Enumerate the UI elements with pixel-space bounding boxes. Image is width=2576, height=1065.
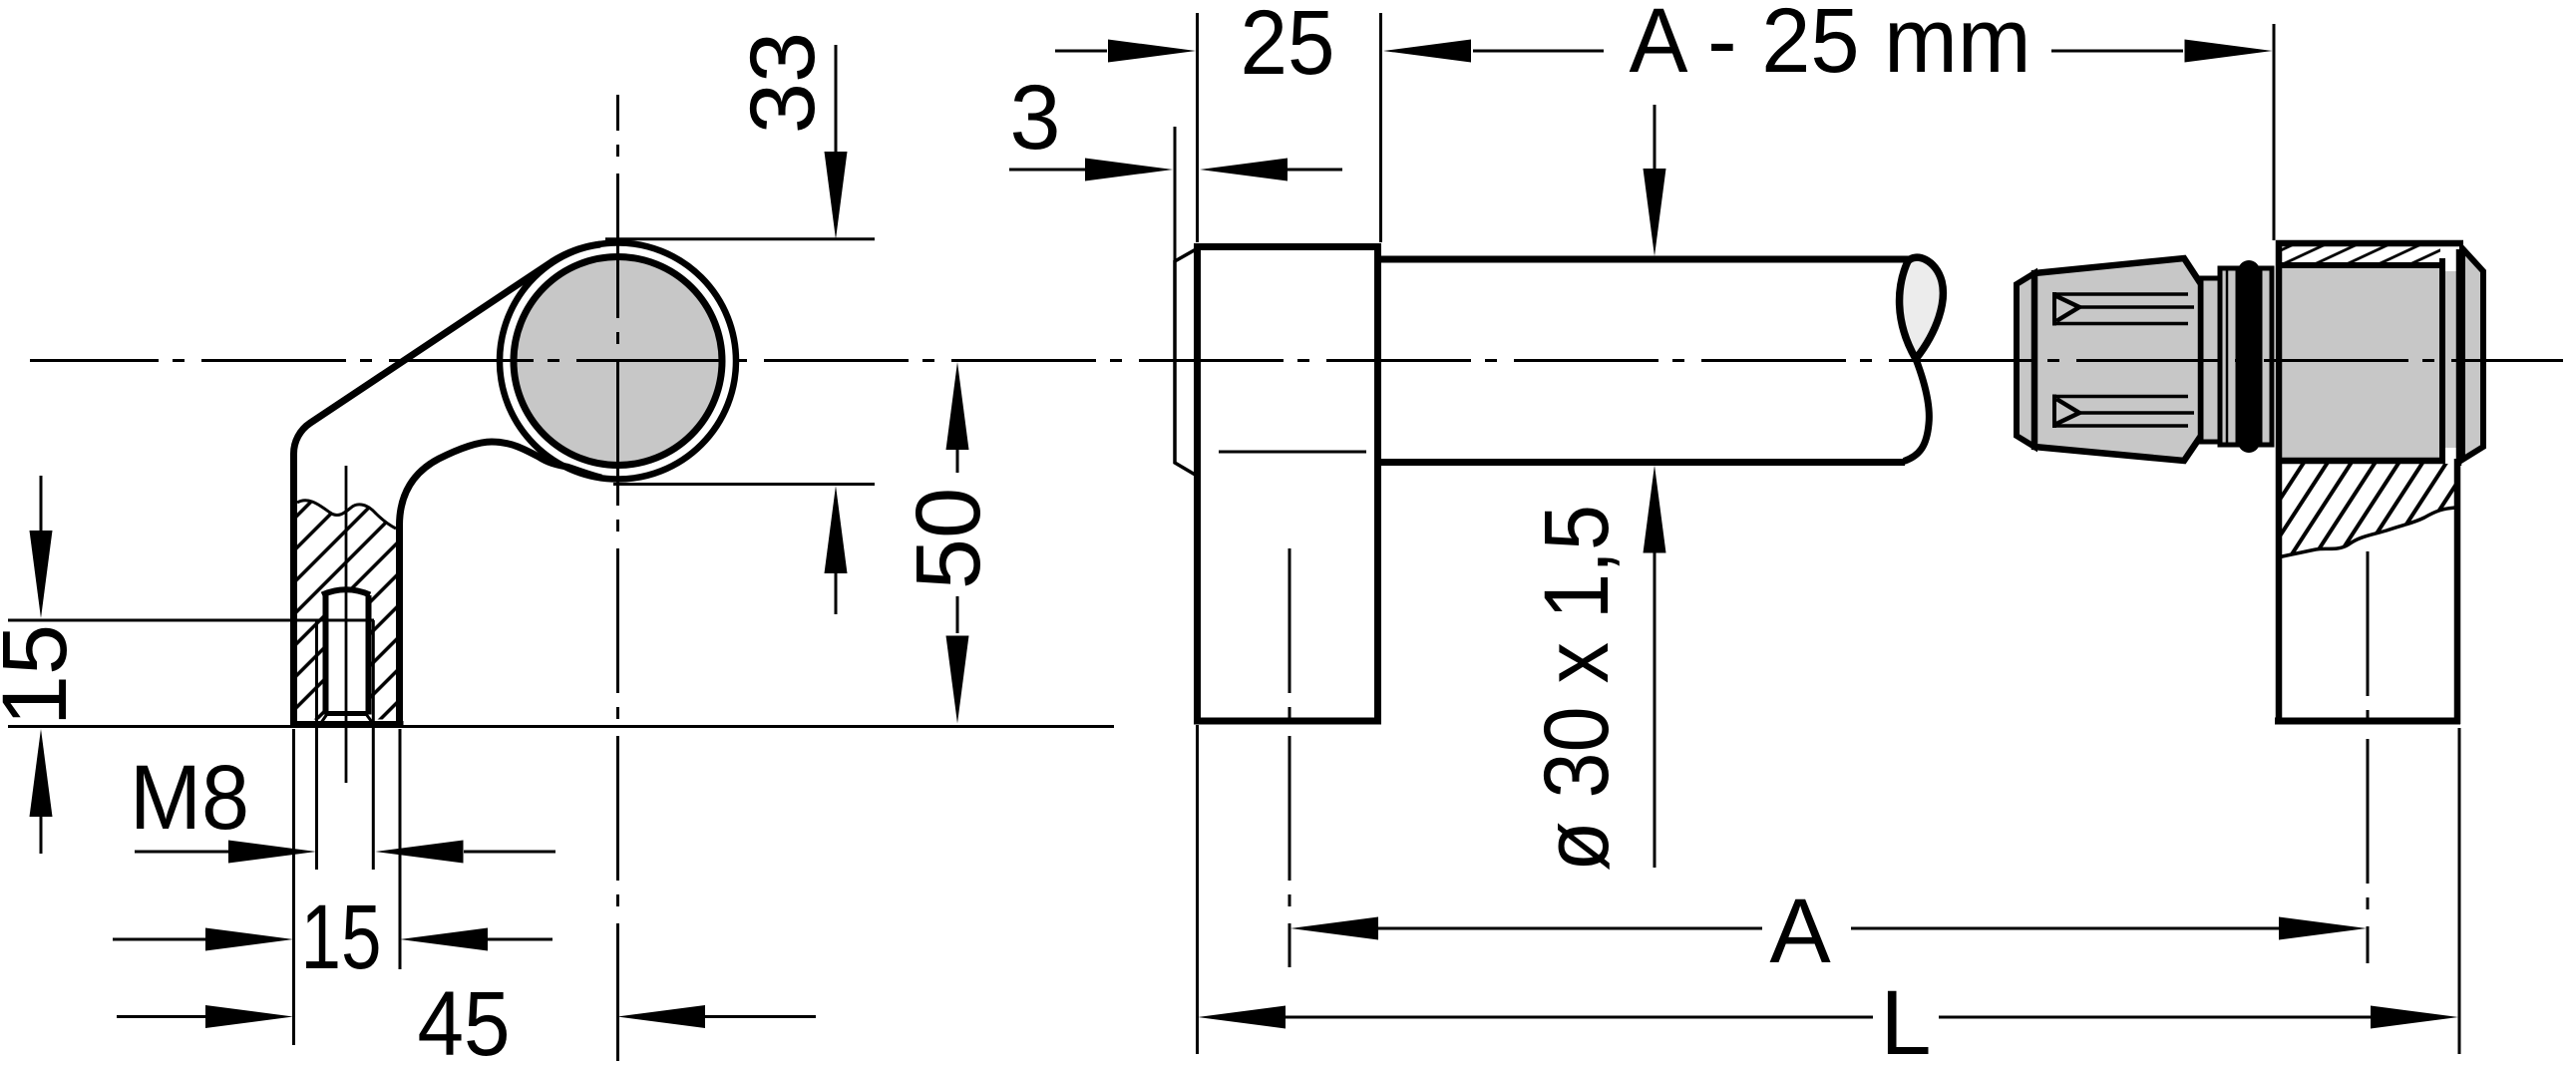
dim 33 lower arrow <box>825 486 848 573</box>
wire: horizontal axis centerline <box>30 359 2563 362</box>
clamp block bottom edge <box>2278 458 2445 465</box>
end cap body outline <box>1198 247 1378 722</box>
washer right of O-ring <box>2260 268 2272 445</box>
M8 hole wall left <box>323 595 329 715</box>
end cap lip (3mm edge) <box>1175 249 1197 477</box>
washer inner line <box>2226 270 2229 443</box>
svg-text:A - 25 mm: A - 25 mm <box>1630 0 2031 92</box>
knob neck <box>2201 278 2220 442</box>
dim dia 30x1,5 lower arrow <box>1644 466 1666 553</box>
M8 thread line right <box>372 620 375 870</box>
upright tube left edge <box>2276 240 2283 724</box>
dim L left arrow <box>1198 1006 1286 1029</box>
svg-text:50: 50 <box>898 488 999 589</box>
tube break S-tail <box>1904 359 1929 462</box>
dim 45 right arrow <box>617 1005 705 1028</box>
dim 15 row left arrow <box>113 938 206 941</box>
upright tube bottom cut edge <box>2275 718 2460 725</box>
extension line cap left face top <box>1196 13 1199 242</box>
svg-text:15: 15 <box>0 624 86 726</box>
bracket bottom mounting face <box>290 721 404 728</box>
svg-text:A: A <box>1769 881 1831 982</box>
cap inner seam line <box>1219 451 1366 454</box>
M8 hole wall right <box>366 595 372 715</box>
dim 15 row right arrow <box>400 928 488 951</box>
clamp knob left collar <box>2017 273 2034 447</box>
extension line cap lip <box>1174 127 1177 261</box>
dim 33 upper arrow <box>835 45 838 153</box>
wire: end cap centerline <box>1288 548 1291 967</box>
extension line leg left face <box>292 729 295 1045</box>
extension line leg inner face <box>399 729 402 969</box>
tube break loop (teardrop) <box>1900 257 1944 359</box>
dim 25 / A-25 shared arrow <box>1383 40 1471 63</box>
svg-text:M8: M8 <box>130 747 249 849</box>
dim M8 right arrow <box>376 841 464 864</box>
extension line tube bottom <box>613 483 875 486</box>
svg-text:L: L <box>1880 972 1931 1065</box>
dim 50 upper arrow <box>946 362 969 450</box>
bracket inner profile <box>400 442 602 724</box>
dim L right arrow <box>1939 1016 2371 1019</box>
dim 15 left upper arrow <box>40 476 43 532</box>
upright tube wall hatch band (top) <box>2278 245 2440 262</box>
dim dia 30x1,5 upper arrow <box>1654 105 1656 170</box>
upright tube right edge <box>2454 459 2461 724</box>
dim 15 left lower arrow <box>30 729 53 817</box>
wire: vertical centerline of tube circle <box>616 95 619 1061</box>
hole axis line <box>345 466 348 783</box>
dim 50 lower arrow <box>956 596 959 633</box>
extension line mounting face <box>8 725 1114 728</box>
bracket outer silhouette <box>294 244 601 724</box>
extension line cap left face bottom <box>1196 725 1199 1054</box>
svg-text:ø 30 x 1,5: ø 30 x 1,5 <box>1526 505 1628 872</box>
dim A-25mm right arrow <box>2051 50 2183 53</box>
extension line cap right face <box>1379 13 1382 242</box>
hatch area of bracket leg (section) <box>297 501 396 720</box>
M8 thread line left <box>315 620 318 870</box>
clamp end trapezoid cap <box>2462 248 2483 460</box>
svg-text:33: 33 <box>732 32 834 134</box>
extension line clamp right face <box>2458 728 2461 1054</box>
white cavity of M8 tapped hole <box>320 590 374 723</box>
extension line clamp left face <box>2273 24 2276 240</box>
clamp body gray <box>2280 265 2439 458</box>
svg-text:3: 3 <box>1009 67 1060 169</box>
dim M8 left arrow <box>135 851 229 854</box>
dim 3 right arrow <box>1200 159 1288 181</box>
clamp knob knurled cone <box>2034 258 2201 461</box>
extension line thread top <box>8 619 374 622</box>
washer left of O-ring <box>2220 268 2238 445</box>
svg-text:25: 25 <box>1241 0 1335 94</box>
O-ring <box>2238 260 2260 453</box>
M8 hole bottom chamfer left <box>321 714 328 724</box>
wire: wavy break line on upright tube <box>2278 508 2455 557</box>
dim 45 left arrow <box>117 1015 206 1018</box>
clamp block top inner edge <box>2278 262 2440 268</box>
M8 hole bottom chamfer right <box>366 714 373 724</box>
clamp body right sliver <box>2445 271 2456 448</box>
M8 hole drill dome <box>322 589 370 594</box>
wire: wavy break line across leg <box>297 501 396 529</box>
extension line tube top <box>605 237 875 240</box>
dim A right arrow <box>1851 927 2279 930</box>
dim 25 left arrow <box>1055 50 1107 53</box>
svg-text:15: 15 <box>301 887 382 988</box>
M8 hole bottom edge <box>326 711 367 716</box>
dim 3 left arrow <box>1009 169 1086 172</box>
upright tube wall hatch (below clamp) <box>2278 464 2455 557</box>
collar outer circle (thin) <box>500 243 736 480</box>
tube top edge <box>1381 256 1909 263</box>
tube cross-section circle (thick, gray) <box>514 257 722 466</box>
tube bottom edge <box>1381 459 1905 466</box>
knurl pennant top <box>2054 292 2194 326</box>
knurl pennant bottom <box>2054 395 2194 429</box>
svg-text:45: 45 <box>418 973 511 1065</box>
clamp right face bar A <box>2439 258 2445 464</box>
wire: upright tube centerline <box>2367 551 2370 963</box>
dim A left arrow <box>1290 917 1378 940</box>
upright tube top edge <box>2276 240 2463 247</box>
clamp right face bar B <box>2456 249 2462 466</box>
